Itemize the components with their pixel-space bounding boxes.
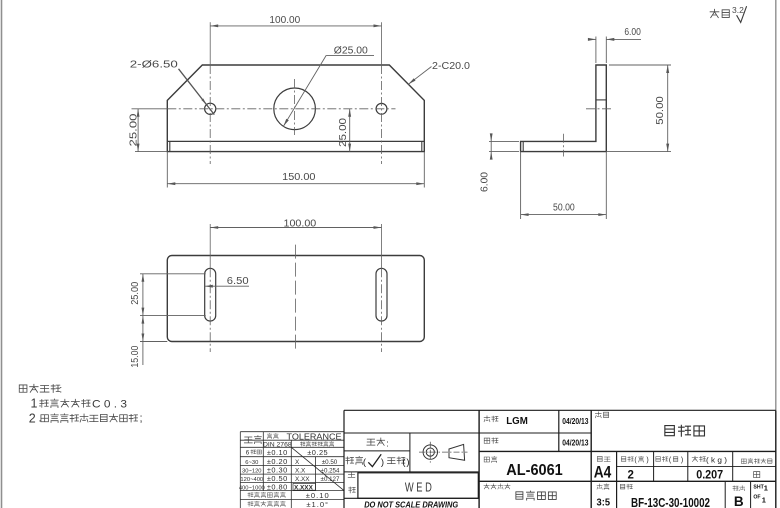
tolerance table header 公差 TOLERANCE bbox=[267, 432, 342, 441]
svg-text:6.00: 6.00 bbox=[479, 172, 491, 192]
tolerance table grid bbox=[240, 432, 344, 508]
centerline vertical left hole bbox=[209, 22, 211, 164]
svg-text:1: 1 bbox=[762, 496, 766, 505]
note 1 bbox=[31, 397, 128, 411]
SHT 1 OF 1 bbox=[753, 484, 768, 505]
svg-text:6: 6 bbox=[246, 450, 250, 457]
label 名称 bbox=[595, 412, 601, 418]
svg-text:2: 2 bbox=[627, 469, 633, 481]
svg-text:1: 1 bbox=[31, 397, 38, 411]
front view bend line bbox=[167, 140, 424, 142]
svg-text:6.00: 6.00 bbox=[624, 27, 641, 38]
svg-text:100.00: 100.00 bbox=[269, 15, 300, 26]
leader 2-C20.0 bbox=[408, 61, 470, 85]
hole right (Ø6.5) bbox=[376, 103, 387, 114]
projection symbol cone bbox=[419, 444, 468, 460]
svg-text:B: B bbox=[734, 494, 744, 508]
svg-text:400~1000: 400~1000 bbox=[239, 485, 265, 491]
centerline vertical right hole bbox=[381, 22, 383, 164]
svg-text:100.00: 100.00 bbox=[284, 219, 317, 230]
front view bend tick right bbox=[421, 141, 423, 151]
svg-text:( k g ): ( k g ) bbox=[706, 456, 728, 465]
svg-text:120~400: 120~400 bbox=[240, 477, 263, 483]
svg-text:50.00: 50.00 bbox=[654, 96, 666, 125]
svg-text:±0.80: ±0.80 bbox=[267, 483, 288, 492]
svg-text:±0.10: ±0.10 bbox=[267, 448, 288, 457]
value 是 bbox=[754, 472, 760, 478]
svg-text:±1.0°: ±1.0° bbox=[306, 500, 329, 508]
svg-text::: : bbox=[59, 385, 62, 396]
tolerance rows values bbox=[267, 448, 288, 492]
svg-text:): ) bbox=[381, 457, 384, 468]
svg-text:0.207: 0.207 bbox=[696, 470, 723, 482]
label 图号 bbox=[620, 484, 624, 489]
svg-text:04/20/13: 04/20/13 bbox=[562, 417, 589, 426]
page border right bbox=[775, 0, 777, 410]
svg-text:04/20/13: 04/20/13 bbox=[562, 439, 589, 448]
leader 6.50 slot bbox=[205, 276, 249, 288]
dim 6.00 side top bbox=[588, 27, 641, 63]
leader Ø25.00 bbox=[283, 46, 374, 127]
dim 50.00 side bottom bbox=[521, 152, 607, 219]
leader 2-Ø6.50 bbox=[130, 60, 215, 115]
svg-text:25.00: 25.00 bbox=[337, 118, 349, 147]
tolerance row 未注孔径公差 bbox=[248, 491, 330, 500]
svg-text:): ) bbox=[681, 457, 683, 464]
tolerance X column bbox=[293, 459, 316, 492]
title block grid bbox=[344, 410, 776, 508]
svg-text:1: 1 bbox=[764, 484, 768, 493]
side view chamfer line bbox=[596, 99, 606, 101]
dim 50.00 side right bbox=[606, 65, 671, 152]
svg-text:15.00: 15.00 bbox=[130, 345, 141, 367]
tolerance table header 未注尺寸公差 bbox=[300, 442, 305, 446]
label 材料 bbox=[484, 457, 489, 462]
dim 25.00 bottom view bbox=[130, 274, 206, 316]
part name 底支板 bbox=[665, 426, 675, 436]
label 单位: bbox=[367, 438, 389, 448]
svg-text:C 0 . 3: C 0 . 3 bbox=[92, 398, 127, 410]
svg-text:TOLERANCE: TOLERANCE bbox=[287, 432, 343, 441]
svg-text:±0.127: ±0.127 bbox=[321, 476, 340, 483]
label 重量(kg) bbox=[692, 456, 727, 465]
side view outline bbox=[521, 65, 607, 152]
front view bend tick left bbox=[169, 141, 171, 151]
value 黑色氧化 bbox=[516, 492, 523, 499]
svg-text:25.00: 25.00 bbox=[127, 113, 139, 146]
svg-text:50.00: 50.00 bbox=[553, 203, 575, 214]
svg-text:3:5: 3:5 bbox=[597, 497, 611, 508]
label 版本 bbox=[733, 486, 738, 491]
svg-text:DO NOT SCALE DRAWING: DO NOT SCALE DRAWING bbox=[364, 499, 458, 508]
svg-text:25.00: 25.00 bbox=[130, 281, 141, 304]
technical notes 技术要求 bbox=[19, 384, 62, 395]
label 毫米(√)英寸( ) bbox=[346, 454, 410, 468]
svg-text:;: ; bbox=[140, 413, 143, 425]
front view outline bbox=[167, 65, 424, 152]
bottom view centerline middle bbox=[294, 245, 296, 351]
label 件数(正) bbox=[621, 456, 648, 464]
label 件数(反) bbox=[656, 456, 683, 464]
label 机型 bbox=[348, 472, 355, 493]
svg-text:2-Ø6.50: 2-Ø6.50 bbox=[130, 60, 179, 71]
label 比例 bbox=[597, 484, 602, 489]
svg-text:X.XX: X.XX bbox=[295, 476, 310, 483]
dim 100.00 bottom view bbox=[210, 219, 381, 230]
dim 25.00 front middle bbox=[337, 109, 351, 152]
side view centerline horizontal bbox=[586, 108, 613, 110]
svg-text:): ) bbox=[646, 457, 648, 464]
slot right bbox=[376, 268, 387, 321]
tolerance table header 精度 bbox=[244, 437, 252, 443]
svg-text:): ) bbox=[406, 457, 409, 468]
svg-text:W E D: W E D bbox=[405, 480, 432, 495]
svg-text:±0.20: ±0.20 bbox=[267, 457, 288, 466]
bottom view centerline right slot bbox=[381, 224, 383, 352]
label 审核 bbox=[484, 438, 490, 443]
WED box bbox=[358, 473, 478, 499]
svg-text:150.00: 150.00 bbox=[282, 172, 316, 183]
label 表面处理 bbox=[484, 484, 489, 489]
dim 150.00 front bottom bbox=[167, 152, 424, 188]
dim 15.00 bottom view bbox=[130, 316, 168, 368]
label 设计 bbox=[484, 416, 490, 422]
svg-text:6~30: 6~30 bbox=[245, 460, 258, 466]
svg-text:BF-13C-30-10002: BF-13C-30-10002 bbox=[631, 496, 710, 508]
dim 25.00 front left bbox=[127, 109, 167, 152]
svg-text:OF: OF bbox=[753, 494, 760, 500]
label 图幅 bbox=[597, 456, 602, 461]
svg-text:X.X: X.X bbox=[295, 468, 306, 475]
svg-text:6.50: 6.50 bbox=[227, 276, 249, 287]
svg-text:30~120: 30~120 bbox=[242, 469, 262, 475]
hole left (Ø6.5) bbox=[205, 103, 216, 114]
bottom view outline bbox=[167, 256, 424, 342]
centerline vertical center hole bbox=[294, 79, 296, 135]
note: surface roughness 其余 3.2 bbox=[710, 5, 747, 22]
tolerance row 未注角度公差 bbox=[248, 500, 329, 508]
svg-text:±0.254: ±0.254 bbox=[321, 468, 340, 475]
label 是否共通件 bbox=[742, 459, 747, 463]
side view centerline vertical bbox=[563, 134, 565, 157]
svg-text:LGM: LGM bbox=[506, 415, 528, 427]
svg-text:±0.50: ±0.50 bbox=[322, 459, 338, 466]
svg-text:3.2: 3.2 bbox=[732, 5, 744, 15]
dim 100.00 front top bbox=[210, 15, 381, 27]
dim 6.00 side left bbox=[479, 133, 520, 192]
tolerance X values bbox=[321, 459, 340, 483]
centerline horizontal hole row bbox=[132, 108, 396, 110]
slot left bbox=[205, 268, 216, 321]
svg-text:A4: A4 bbox=[594, 463, 612, 482]
svg-text:2: 2 bbox=[29, 412, 36, 426]
bottom view centerline left slot bbox=[209, 224, 211, 352]
projection symbol donut bbox=[423, 442, 437, 463]
svg-text:2-C20.0: 2-C20.0 bbox=[432, 61, 470, 72]
svg-text:±0.25: ±0.25 bbox=[307, 448, 328, 457]
note 2 bbox=[29, 412, 143, 426]
svg-text:AL-6061: AL-6061 bbox=[506, 462, 563, 479]
svg-text:±0.10: ±0.10 bbox=[306, 491, 330, 500]
svg-text:Ø25.00: Ø25.00 bbox=[334, 46, 368, 57]
center hole (Ø25) bbox=[274, 88, 316, 130]
side view bend tick bbox=[522, 141, 524, 151]
tolerance rows ranges bbox=[239, 450, 265, 492]
page border left bbox=[1, 0, 3, 508]
svg-text:X: X bbox=[295, 459, 300, 466]
svg-text::: : bbox=[386, 439, 389, 449]
